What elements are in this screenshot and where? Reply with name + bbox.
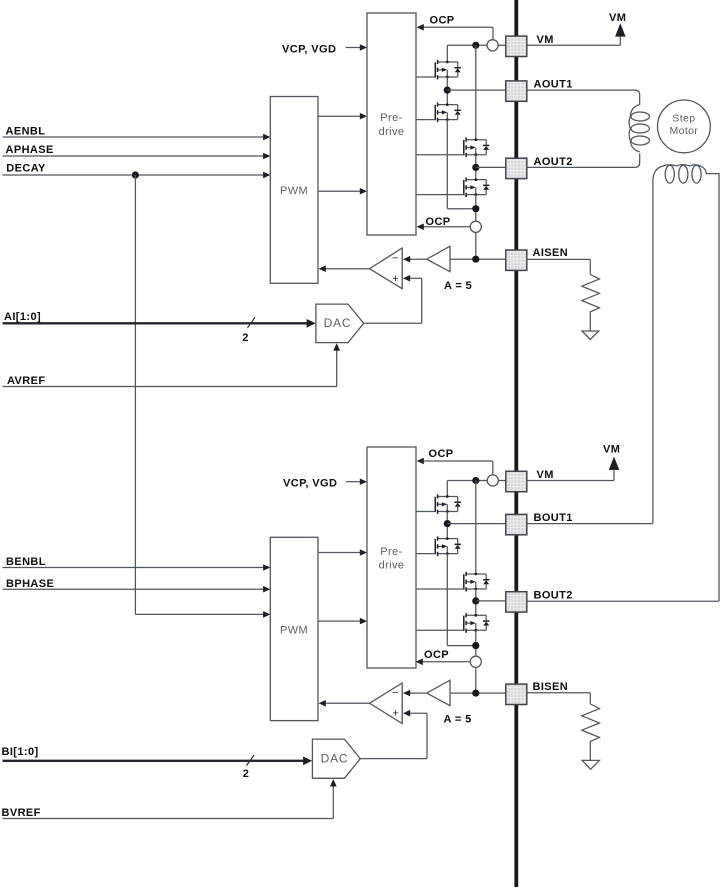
node bridge B bottom junction — [472, 642, 479, 649]
wire BOUT1 to pin — [447, 523, 506, 525]
wire OCP A top sense — [417, 24, 493, 40]
label BENBL — [6, 556, 46, 568]
wire DECAY input — [3, 172, 271, 179]
svg-text:−: − — [392, 253, 398, 265]
PWM block U3 (channel B) — [270, 537, 318, 720]
wire AENBL input — [3, 134, 271, 141]
svg-text:AOUT2: AOUT2 — [534, 156, 573, 168]
node bridge A bottom junction — [472, 205, 479, 212]
wire PWM B to pre-drive 1 — [318, 549, 367, 556]
wire OCP B bottom sense — [416, 659, 471, 666]
ground (B sense) — [582, 760, 599, 769]
svg-text:BENBL: BENBL — [6, 556, 46, 568]
pin AISEN — [506, 250, 527, 270]
svg-text:PWM: PWM — [280, 185, 308, 197]
current sensor circle (B top OCP) — [487, 475, 498, 486]
wire VM rail A — [447, 44, 506, 46]
wire BISEN to resistor — [527, 693, 591, 704]
resistor R2 (B sense) — [582, 704, 600, 760]
svg-text:VCP, VGD: VCP, VGD — [282, 43, 336, 55]
ground (A sense) — [582, 331, 599, 340]
wire comparator B output to PWM — [319, 700, 370, 707]
pin label BOUT1 — [534, 512, 573, 524]
wire Q1 source to AOUT1 — [446, 77, 448, 105]
wire comparator A plus input from DAC — [364, 275, 422, 323]
label DECAY — [6, 163, 46, 175]
op-amp comparator (channel B) — [370, 683, 403, 724]
wire PWM A to pre-drive 2 — [318, 188, 367, 195]
transistor Q4 (A low side 2) — [463, 177, 489, 197]
wire DECAY branch to PWM B — [135, 175, 270, 618]
svg-text:AENBL: AENBL — [6, 126, 46, 138]
pin label BISEN — [533, 681, 569, 693]
wire VCP VGD into pre-drive B — [346, 478, 367, 485]
transistor Q8 (B low side 2) — [463, 613, 489, 633]
resistor R1 (A sense) — [582, 274, 600, 331]
wire BOUT1 to winding — [527, 523, 653, 525]
svg-text:DECAY: DECAY — [6, 163, 46, 175]
step motor M1 — [658, 100, 711, 153]
node BOUT1 junction — [444, 520, 451, 527]
pin label AOUT1 — [534, 79, 573, 91]
svg-text:AISEN: AISEN — [533, 247, 569, 259]
transistor Q2 (A low side 1) — [435, 102, 461, 122]
wire Q7 source to BOUT2 — [475, 589, 477, 615]
pin label BOUT2 — [534, 589, 573, 601]
svg-text:A = 5: A = 5 — [444, 714, 472, 726]
svg-text:Motor: Motor — [669, 125, 698, 137]
wire VM rail B — [447, 480, 506, 482]
wire comparator B plus input from DAC — [360, 710, 427, 759]
wire bridge A bottom to sense node — [475, 195, 477, 260]
current sensor circle (A top OCP) — [487, 40, 498, 51]
wire BI bus into DAC — [3, 757, 313, 766]
pin label AISEN — [533, 247, 569, 259]
label 2 (B bus width) — [243, 768, 250, 780]
svg-text:BPHASE: BPHASE — [6, 578, 54, 590]
svg-text:BI[1:0]: BI[1:0] — [2, 746, 39, 758]
label OCP (B top) — [429, 448, 454, 460]
label VM (B supply) — [603, 443, 620, 455]
node AOUT2 junction — [472, 164, 479, 171]
wire BVREF into DAC — [3, 779, 337, 818]
transistor Q5 (B high side 1) — [435, 494, 461, 514]
svg-text:OCP: OCP — [424, 649, 449, 661]
pin VM (B) — [506, 471, 527, 491]
svg-text:BVREF: BVREF — [2, 807, 41, 819]
wire gain A output to comparator minus — [403, 256, 427, 263]
wire VM-A supply arrow — [527, 23, 626, 45]
gain amplifier A = 5 (channel B) — [427, 680, 450, 706]
wire AISEN to resistor — [527, 259, 591, 274]
wire BISEN sense line — [450, 692, 506, 694]
label OCP (B bottom) — [424, 649, 449, 661]
transistor Q6 (B low side 1) — [435, 536, 461, 556]
wire Q5 gate — [416, 511, 435, 513]
pin BOUT2 — [506, 592, 527, 612]
wire AISEN sense line — [450, 258, 506, 260]
bus width slash (B) — [247, 755, 255, 766]
wire BPHASE input — [3, 586, 271, 593]
transistor Q7 (B high side 2) — [463, 572, 489, 592]
svg-text:A = 5: A = 5 — [444, 280, 472, 292]
wire AOUT1 to pin — [447, 89, 506, 91]
inductor winding A — [527, 90, 650, 167]
wire B left half-bridge drain — [446, 481, 448, 497]
transistor Q1 (A high side 1) — [435, 60, 461, 80]
current sensor circle (B bottom OCP) — [470, 656, 481, 667]
svg-text:DAC: DAC — [321, 752, 349, 766]
svg-text:Pre-: Pre- — [380, 112, 402, 124]
wire comparator A output to PWM — [319, 265, 370, 272]
wire OCP A bottom sense — [417, 224, 471, 231]
label AVREF — [7, 375, 45, 387]
wire Q3 gate — [416, 154, 464, 156]
wire A right half-bridge drain — [475, 45, 477, 139]
svg-text:APHASE: APHASE — [6, 144, 54, 156]
label 2 (A bus width) — [242, 332, 249, 344]
label A = 5 (channel A) — [444, 280, 472, 292]
wire Q5 source to BOUT1 — [446, 512, 448, 539]
label BI[1:0] — [2, 746, 39, 758]
wire Q2 source down — [447, 120, 476, 209]
DAC block (channel B) — [312, 739, 360, 778]
svg-text:OCP: OCP — [429, 448, 454, 460]
svg-text:+: + — [392, 273, 398, 285]
svg-text:BOUT1: BOUT1 — [534, 512, 573, 524]
svg-text:DAC: DAC — [324, 316, 352, 330]
inductor winding B (motor phase B) — [653, 165, 719, 602]
pin label AOUT2 — [534, 156, 573, 168]
wire VM-B supply arrow — [527, 457, 620, 481]
svg-text:Step: Step — [672, 112, 695, 124]
DAC block (channel A) — [316, 304, 364, 343]
pin label VM (B) — [537, 469, 554, 481]
svg-text:2: 2 — [243, 768, 250, 780]
svg-text:VM: VM — [537, 469, 554, 481]
svg-text:VM: VM — [537, 34, 554, 46]
svg-text:VM: VM — [603, 443, 620, 455]
node BISEN junction — [472, 690, 479, 697]
wire Q8 gate — [416, 629, 464, 631]
svg-text:OCP: OCP — [430, 14, 455, 26]
label AI[1:0] — [4, 311, 41, 323]
wire bridge B bottom to sense node — [475, 630, 477, 693]
label VCP, VGD (A) — [282, 43, 336, 55]
svg-text:−: − — [392, 687, 398, 699]
pin VM (A) — [506, 36, 527, 56]
PWM block U1 (channel A) — [270, 97, 318, 284]
wire Q6 gate — [416, 553, 435, 555]
svg-text:2: 2 — [242, 332, 249, 344]
wire PWM A to pre-drive 1 — [318, 113, 367, 120]
wire Q4 gate — [416, 194, 464, 196]
pin AOUT1 — [506, 81, 527, 101]
gain amplifier A = 5 (channel A) — [427, 246, 450, 272]
svg-text:VCP, VGD: VCP, VGD — [283, 477, 337, 489]
Pre-drive block U2 (channel A) — [367, 13, 416, 235]
node VM-B junction — [472, 477, 479, 484]
wire BOUT2 to pin — [476, 600, 506, 602]
wire OCP B top sense — [417, 458, 493, 476]
wire AI bus into DAC — [3, 319, 316, 328]
svg-text:BISEN: BISEN — [533, 681, 569, 693]
svg-text:AOUT1: AOUT1 — [534, 79, 573, 91]
svg-text:PWM: PWM — [280, 625, 308, 637]
pin BOUT1 — [506, 514, 527, 534]
wire B right half-bridge drain — [475, 481, 477, 575]
label OCP (A bottom) — [426, 216, 451, 228]
svg-text:AVREF: AVREF — [7, 375, 45, 387]
label OCP (A top) — [430, 14, 455, 26]
wire PWM B to pre-drive 2 — [318, 618, 367, 625]
svg-text:AI[1:0]: AI[1:0] — [4, 311, 41, 323]
svg-text:drive: drive — [379, 560, 405, 572]
wire A left half-bridge drain — [446, 45, 448, 62]
label APHASE — [6, 144, 54, 156]
wire VCP VGD into pre-drive A — [346, 44, 368, 51]
label VM (A supply) — [609, 12, 626, 24]
node VM-A junction — [472, 42, 479, 49]
wire Q2 gate — [416, 119, 435, 121]
wire Q3 source to AOUT2 — [475, 155, 477, 180]
Pre-drive block U4 (channel B) — [367, 447, 416, 668]
label BPHASE — [6, 578, 54, 590]
wire gain B output to comparator minus — [403, 690, 427, 697]
label VCP, VGD (B) — [283, 477, 337, 489]
bus width slash (A) — [248, 317, 256, 328]
svg-text:drive: drive — [379, 126, 405, 138]
pin label VM (A) — [537, 34, 554, 46]
svg-text:+: + — [392, 708, 398, 720]
power rail / VM bus line — [514, 0, 518, 887]
label BVREF — [2, 807, 41, 819]
wire BOUT2 to winding — [527, 600, 719, 602]
node BOUT2 junction — [472, 597, 479, 604]
svg-text:Pre-: Pre- — [380, 546, 402, 558]
node DECAY junction — [132, 171, 139, 178]
label A = 5 (channel B) — [444, 714, 472, 726]
node AISEN junction — [472, 256, 479, 263]
wire AOUT2 to pin — [476, 166, 506, 168]
op-amp comparator (channel A) — [370, 248, 403, 289]
wire Q1 gate — [416, 76, 435, 78]
svg-text:VM: VM — [609, 12, 626, 24]
svg-text:BOUT2: BOUT2 — [534, 589, 573, 601]
transistor Q3 (A high side 2) — [463, 138, 489, 158]
current sensor circle (A bottom OCP) — [470, 221, 481, 232]
svg-text:OCP: OCP — [426, 216, 451, 228]
pin AOUT2 — [506, 158, 527, 178]
label AENBL — [6, 126, 46, 138]
node AOUT1 junction — [444, 87, 451, 94]
pin BISEN — [506, 684, 527, 704]
wire Q6 source down — [447, 554, 476, 646]
wire APHASE input — [3, 153, 271, 160]
wire BENBL input — [3, 564, 271, 571]
wire Q7 gate — [416, 588, 464, 590]
wire AVREF into DAC — [3, 343, 341, 386]
